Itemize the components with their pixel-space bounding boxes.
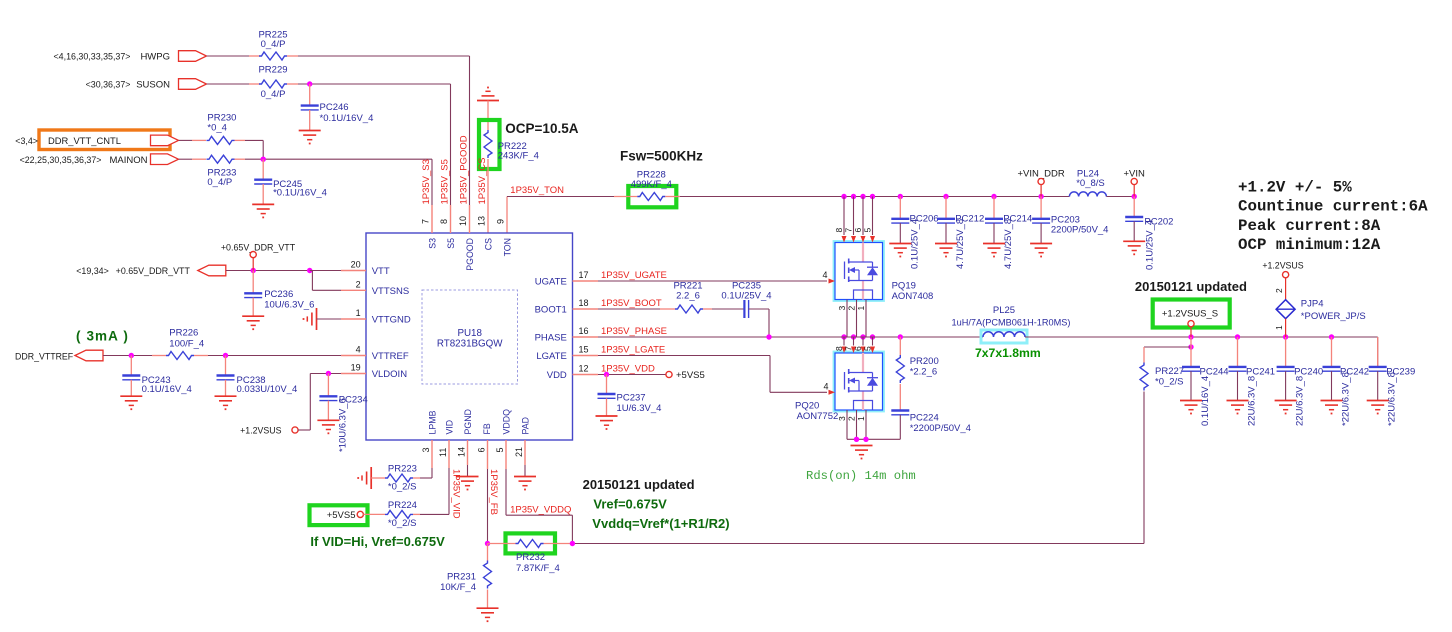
svg-text:FB: FB — [482, 423, 492, 434]
svg-text:SUSON: SUSON — [136, 80, 170, 91]
svg-text:3: 3 — [837, 306, 847, 311]
wire 1P35V_LGATE — [598, 345, 827, 393]
annotation output spec — [1238, 179, 1428, 255]
annotation 20150121 bottom — [583, 477, 695, 492]
svg-text:8: 8 — [834, 346, 844, 351]
svg-text:VDDQ: VDDQ — [502, 409, 512, 435]
PQ19 gate pin 4 — [822, 270, 835, 284]
svg-text:7x7x1.8mm: 7x7x1.8mm — [975, 346, 1041, 360]
op-amp controller U-PU18 RT8231BGQW body — [366, 233, 573, 440]
PQ20 drain pins 8 7 6 5 — [834, 337, 875, 353]
wire VTT net — [226, 268, 341, 273]
svg-text:1P35V_UGATE: 1P35V_UGATE — [601, 270, 667, 281]
ground below PC245 — [252, 204, 274, 217]
ground above PR222 (inverted) — [477, 88, 499, 131]
pin 3 LPMB — [421, 410, 438, 468]
svg-text:20150121 updated: 20150121 updated — [583, 477, 695, 492]
svg-text:S3: S3 — [428, 238, 438, 249]
ground at PAD pin — [514, 477, 536, 490]
svg-text:1P35V_BOOT: 1P35V_BOOT — [601, 298, 662, 309]
svg-text:10: 10 — [458, 216, 468, 226]
ground at VTTGND pin — [304, 308, 342, 330]
node DDR_VTTREF output flag — [15, 350, 103, 361]
PQ20 source pins 3 2 1 — [837, 410, 900, 442]
resistor PR227 — [1140, 363, 1184, 544]
ground below PC234 — [317, 420, 339, 433]
svg-text:VTTSNS: VTTSNS — [372, 286, 409, 297]
svg-text:8: 8 — [439, 219, 449, 224]
svg-text:3: 3 — [421, 447, 431, 452]
svg-text:*2.2_6: *2.2_6 — [910, 367, 937, 378]
PQ20 gate pin 4 — [823, 381, 835, 395]
node +0.65V_DDR_VTT output flag — [76, 265, 226, 276]
svg-text:7: 7 — [844, 228, 854, 233]
resistor PR229 — [258, 65, 287, 101]
node +VIN_DDR terminal — [1017, 169, 1064, 197]
svg-text:1P35V_CS: 1P35V_CS — [477, 157, 488, 204]
svg-text:<19,34>: <19,34> — [76, 266, 109, 276]
svg-text:*0.1U/16V_4: *0.1U/16V_4 — [320, 113, 374, 124]
svg-text:5: 5 — [863, 228, 873, 233]
svg-text:15: 15 — [578, 345, 588, 355]
pin 5 VDDQ — [495, 409, 512, 469]
svg-text:RT8231BGQW: RT8231BGQW — [437, 339, 503, 350]
wire SUSON to PR229 — [207, 83, 261, 85]
ground below PC244 — [1180, 401, 1202, 414]
svg-text:100/F_4: 100/F_4 — [169, 338, 204, 349]
svg-text:+1.2V +/- 5%: +1.2V +/- 5% — [1238, 179, 1352, 197]
svg-text:+0.65V_DDR_VTT: +0.65V_DDR_VTT — [221, 243, 296, 253]
svg-text:6: 6 — [853, 346, 863, 351]
svg-text:6: 6 — [477, 447, 487, 452]
svg-text:+1.2VSUS: +1.2VSUS — [1262, 261, 1303, 271]
svg-text:5: 5 — [495, 447, 505, 452]
capacitor PC238 — [217, 356, 298, 397]
wire VDDQ sense to PR227 — [572, 543, 1144, 545]
svg-text:VTT: VTT — [372, 266, 390, 277]
svg-text:14: 14 — [457, 447, 467, 457]
pin 19 VLDOIN — [341, 363, 407, 381]
inductor PL25 highlighted — [952, 305, 1071, 343]
svg-text:Fsw=500KHz: Fsw=500KHz — [620, 149, 703, 164]
svg-text:<4,16,30,33,35,37>: <4,16,30,33,35,37> — [54, 52, 131, 62]
PQ19 source pins 3 2 1 — [837, 300, 875, 340]
svg-text:AON7752: AON7752 — [797, 411, 839, 422]
svg-text:*22U/6.3V_8: *22U/6.3V_8 — [1341, 372, 1352, 426]
svg-text:PC237: PC237 — [617, 393, 646, 404]
wire FB net — [485, 469, 499, 546]
svg-text:4: 4 — [356, 345, 361, 355]
svg-text:1P35V_VDD: 1P35V_VDD — [601, 364, 655, 375]
wire VTTSNS branch — [310, 271, 341, 291]
svg-text:PR200: PR200 — [910, 356, 939, 367]
capacitor PC240 — [1277, 337, 1324, 426]
svg-text:PC203: PC203 — [1051, 214, 1080, 225]
capacitor PC224 — [891, 411, 971, 440]
svg-text:1P35V_S3: 1P35V_S3 — [421, 159, 432, 204]
svg-text:+5VS5: +5VS5 — [676, 370, 705, 381]
pin 18 BOOT1 — [535, 298, 598, 316]
inductor PL24 — [1069, 169, 1106, 197]
ground below PR231 — [477, 608, 499, 621]
svg-text:+0.65V_DDR_VTT: +0.65V_DDR_VTT — [116, 266, 191, 276]
pin 14 PGND — [457, 409, 474, 476]
svg-text:1P35V_PGOOD: 1P35V_PGOOD — [458, 135, 469, 204]
capacitor PC203 — [1032, 197, 1108, 244]
resistor PR200 — [896, 337, 938, 411]
svg-text:1: 1 — [356, 308, 361, 318]
svg-text:243K/F_4: 243K/F_4 — [498, 151, 539, 162]
svg-text:20150121 updated: 20150121 updated — [1135, 279, 1247, 294]
resistor PR228 highlighted — [614, 169, 680, 207]
wire PL24 to +VIN — [1106, 194, 1137, 199]
capacitor PC212 — [937, 197, 984, 270]
svg-text:<30,36,37>: <30,36,37> — [86, 80, 131, 90]
svg-text:7: 7 — [844, 346, 854, 351]
ground below PC202 — [1123, 241, 1145, 254]
svg-text:<3,4>: <3,4> — [15, 136, 38, 146]
svg-text:8: 8 — [834, 228, 844, 233]
wire input rail +VIN_DDR — [680, 194, 1069, 199]
svg-text:1P35V_PHASE: 1P35V_PHASE — [601, 326, 667, 337]
svg-text:PJP4: PJP4 — [1301, 299, 1324, 310]
ground below PQ20 — [851, 446, 873, 459]
svg-text:PC246: PC246 — [320, 102, 349, 113]
svg-text:*0_8/S: *0_8/S — [1076, 178, 1105, 189]
svg-text:OCP=10.5A: OCP=10.5A — [505, 121, 578, 136]
transistor PQ20 AON7752 — [795, 352, 884, 422]
wire output rail +1.2VSUS_S — [1025, 334, 1378, 367]
pin 2 VTTSNS — [341, 279, 409, 297]
svg-text:1uH/7A(PCMB061H-1R0MS): 1uH/7A(PCMB061H-1R0MS) — [952, 317, 1071, 327]
jumper PJP4 *POWER_JP/S — [1274, 278, 1366, 337]
capacitor PC206 — [891, 197, 938, 270]
svg-text:VTTREF: VTTREF — [372, 351, 409, 362]
svg-text:1P35V_VDDQ: 1P35V_VDDQ — [510, 504, 571, 515]
svg-text:*0_2/S: *0_2/S — [388, 481, 417, 492]
svg-text:5: 5 — [863, 346, 873, 351]
svg-text:PR226: PR226 — [169, 328, 198, 339]
svg-text:1U/6.3V_4: 1U/6.3V_4 — [617, 403, 662, 414]
svg-text:PL25: PL25 — [993, 305, 1015, 316]
resistor PR223 — [371, 464, 420, 493]
node +VIN terminal — [1124, 169, 1146, 197]
svg-text:0.033U/10V_4: 0.033U/10V_4 — [237, 384, 298, 395]
node +5VS5 terminal — [666, 370, 705, 381]
wire HWPG to PR225 — [207, 55, 261, 57]
resistor PR230 — [207, 113, 237, 145]
pin 7 S3 — [421, 159, 438, 249]
resistor PR222 highlighted — [479, 120, 539, 233]
svg-text:BOOT1: BOOT1 — [535, 305, 567, 316]
capacitor PC239 — [1369, 337, 1416, 426]
resistor PR231 — [440, 544, 491, 609]
wire 1P35V_VDD — [598, 364, 666, 378]
pin 8 S5 — [439, 159, 456, 249]
pin 6 FB — [477, 423, 493, 469]
svg-text:6: 6 — [853, 228, 863, 233]
svg-text:10K/F_4: 10K/F_4 — [440, 582, 476, 593]
svg-text:MAINON: MAINON — [110, 155, 148, 166]
svg-text:4: 4 — [822, 270, 827, 280]
wire 1P35V_VDDQ net — [506, 469, 575, 546]
pin 17 UGATE — [535, 270, 598, 288]
svg-text:LGATE: LGATE — [536, 351, 566, 362]
transistor PQ19 AON7408 — [834, 241, 934, 302]
wire PR226 to VTTREF pin — [194, 353, 341, 358]
capacitor PC245 — [254, 159, 327, 204]
svg-text:S5: S5 — [446, 238, 456, 249]
svg-text:499K/F_4: 499K/F_4 — [631, 179, 672, 190]
pin 15 LGATE — [536, 345, 598, 363]
ground below PC214 — [983, 244, 1005, 257]
capacitor PC242 — [1323, 337, 1370, 426]
node DDR_VTT_CNTL highlighted flag — [15, 130, 178, 150]
svg-text:VDD: VDD — [547, 370, 567, 381]
pin 9 TON — [496, 219, 513, 256]
pin 21 PAD — [514, 417, 531, 476]
svg-text:1: 1 — [856, 306, 866, 311]
svg-text:*0_2/S: *0_2/S — [1155, 377, 1184, 388]
svg-text:12: 12 — [578, 364, 588, 374]
capacitor PC237 — [598, 375, 662, 417]
wire VTTREF net — [103, 353, 166, 358]
resistor PR224 — [363, 500, 420, 529]
svg-text:Vvddq=Vref*(1+R1/R2): Vvddq=Vref*(1+R1/R2) — [592, 516, 729, 531]
svg-text:PQ20: PQ20 — [795, 401, 819, 412]
resistor PR226 — [166, 328, 204, 360]
svg-text:Rds(on) 14m ohm: Rds(on) 14m ohm — [806, 469, 916, 483]
svg-text:CS: CS — [484, 238, 494, 250]
resistor PR225 — [258, 30, 287, 61]
wire 1P35V_TON — [507, 185, 614, 233]
capacitor PC241 — [1229, 337, 1276, 426]
capacitor PC246 — [301, 84, 374, 131]
svg-text:<22,25,30,35,36,37>: <22,25,30,35,36,37> — [20, 155, 102, 165]
svg-text:2: 2 — [847, 416, 857, 421]
svg-text:PHASE: PHASE — [535, 333, 567, 344]
svg-text:1: 1 — [856, 416, 866, 421]
svg-text:PGND: PGND — [463, 409, 473, 434]
ground below PC212 — [935, 244, 957, 257]
svg-text:VLDOIN: VLDOIN — [372, 369, 408, 380]
svg-text:7.87K/F_4: 7.87K/F_4 — [516, 563, 560, 574]
svg-text:16: 16 — [578, 326, 588, 336]
capacitor PC234 — [319, 374, 367, 453]
ground below PC246 — [299, 131, 321, 144]
svg-text:*0.1U/16V_4: *0.1U/16V_4 — [273, 187, 327, 198]
svg-text:DDR_VTT_CNTL: DDR_VTT_CNTL — [48, 135, 121, 146]
svg-text:2: 2 — [847, 306, 857, 311]
svg-text:PR227: PR227 — [1155, 366, 1184, 377]
pin 13 CS — [477, 157, 494, 250]
wire FB sense branch — [1144, 344, 1194, 362]
svg-text:17: 17 — [578, 270, 588, 280]
svg-text:PU18: PU18 — [457, 328, 482, 339]
PQ19 drain pins 8 7 6 5 — [834, 197, 875, 243]
ground below PC237 — [596, 416, 618, 429]
svg-text:1P35V_FB: 1P35V_FB — [488, 469, 499, 515]
node +0.65V_DDR_VTT terminal — [221, 243, 296, 271]
capacitor PC202 — [1125, 197, 1173, 271]
svg-text:1: 1 — [1274, 325, 1284, 330]
svg-text:18: 18 — [578, 298, 588, 308]
svg-text:3: 3 — [837, 416, 847, 421]
svg-text:PR229: PR229 — [258, 65, 287, 76]
svg-text:0.1U/25V_4: 0.1U/25V_4 — [721, 290, 771, 301]
svg-text:2: 2 — [1274, 288, 1284, 293]
svg-text:21: 21 — [514, 447, 524, 457]
ground at PR223 — [358, 467, 371, 489]
svg-text:20: 20 — [351, 260, 361, 270]
svg-text:9: 9 — [496, 219, 506, 224]
node +1.2VSUS terminal — [240, 425, 298, 435]
svg-text:PR224: PR224 — [388, 500, 417, 511]
svg-text:0.1U/16V_4: 0.1U/16V_4 — [142, 384, 192, 395]
pin 4 VTTREF — [341, 345, 409, 363]
wire MAINON to 1P35V_S3 vertical — [235, 157, 433, 206]
svg-text:13: 13 — [477, 216, 487, 226]
svg-text:( 3mA ): ( 3mA ) — [76, 329, 129, 344]
capacitor PC235 (series) — [712, 281, 772, 319]
ground at PGND pin — [457, 477, 479, 490]
resistor PR233 — [179, 155, 237, 188]
svg-text:*0_4: *0_4 — [207, 122, 227, 133]
svg-text:PGOOD: PGOOD — [465, 238, 475, 271]
svg-text:0_4/P: 0_4/P — [261, 89, 286, 100]
svg-text:PR223: PR223 — [388, 464, 417, 475]
annotation Vref — [593, 497, 667, 512]
ground below PC239 — [1367, 401, 1389, 414]
wire PR225 to 1P35V_PGOOD vertical — [287, 56, 470, 205]
svg-text:If VID=Hi, Vref=0.675V: If VID=Hi, Vref=0.675V — [310, 534, 445, 549]
annotation PL25 size — [975, 346, 1041, 360]
wire 1P35V_BOOT — [598, 298, 662, 309]
svg-text:+1.2VSUS_S: +1.2VSUS_S — [1162, 308, 1218, 319]
wire PR229 to 1P35V_S5 vertical — [287, 81, 451, 205]
svg-text:10U/6.3V_6: 10U/6.3V_6 — [264, 300, 314, 311]
annotation Rds(on) — [806, 469, 916, 483]
node +1.2VSUS terminal at PJP4 — [1262, 261, 1303, 278]
svg-text:DDR_VTTREF: DDR_VTTREF — [15, 351, 74, 361]
svg-text:+5VS5: +5VS5 — [327, 510, 356, 521]
svg-text:PQ19: PQ19 — [892, 281, 916, 292]
wire 1P35V_UGATE — [598, 270, 827, 281]
ground below PC236 — [242, 316, 264, 329]
svg-text:11: 11 — [438, 448, 448, 457]
svg-text:19: 19 — [351, 363, 361, 373]
wire VLDOIN net — [298, 371, 341, 430]
capacitor PC236 — [244, 271, 314, 317]
svg-text:Vref=0.675V: Vref=0.675V — [593, 497, 667, 512]
svg-text:*10U/6.3V_6: *10U/6.3V_6 — [337, 398, 348, 452]
svg-text:1P35V_LGATE: 1P35V_LGATE — [601, 345, 665, 356]
pin 16 PHASE — [535, 326, 598, 344]
capacitor PC244 — [1182, 337, 1229, 426]
svg-text:4: 4 — [823, 381, 828, 391]
annotation 3mA — [76, 329, 129, 344]
svg-text:1P35V_S5: 1P35V_S5 — [439, 159, 450, 204]
svg-text:0.1U/25V_4: 0.1U/25V_4 — [1144, 220, 1155, 270]
svg-text:+1.2VSUS: +1.2VSUS — [240, 425, 281, 435]
svg-text:LPMB: LPMB — [428, 410, 438, 434]
wire PR230 to MAINON junction — [235, 140, 264, 159]
node MAINON input flag — [20, 154, 179, 166]
svg-text:PC224: PC224 — [910, 413, 939, 424]
capacitor PC214 — [985, 197, 1032, 270]
annotation If VID — [310, 534, 445, 549]
svg-text:PR232: PR232 — [516, 552, 545, 563]
svg-text:*2200P/50V_4: *2200P/50V_4 — [910, 423, 971, 434]
annotation OCP — [505, 121, 578, 136]
ground below PC241 — [1227, 401, 1249, 414]
ground below PC238 — [215, 396, 237, 409]
svg-text:VTTGND: VTTGND — [372, 315, 411, 326]
resistor PR221 — [660, 281, 712, 314]
ground below PC243 — [120, 396, 142, 409]
wire VID net — [420, 468, 461, 519]
pin 1 VTTGND — [341, 308, 411, 326]
pin 20 VTT — [341, 260, 390, 278]
svg-text:UGATE: UGATE — [535, 277, 567, 288]
wire phase rail to PL25 — [836, 334, 983, 339]
node HWPG input flag — [54, 51, 207, 63]
node SUSON input flag — [86, 79, 207, 91]
ground below PC206 — [889, 244, 911, 257]
ground below PC203 — [1030, 244, 1052, 257]
node +5VS5 highlighted terminal — [310, 505, 368, 525]
svg-text:2: 2 — [356, 279, 361, 289]
svg-text:1P35V_TON: 1P35V_TON — [510, 185, 564, 196]
svg-text:0_4/P: 0_4/P — [207, 177, 232, 188]
svg-text:*POWER_JP/S: *POWER_JP/S — [1301, 311, 1366, 322]
wire BOOT to phase rail — [768, 309, 770, 337]
pin 10 PGOOD — [458, 135, 475, 271]
annotation Fsw — [620, 149, 703, 164]
svg-text:*0_2/S: *0_2/S — [388, 518, 417, 529]
svg-text:HWPG: HWPG — [140, 52, 170, 63]
wire DDR_VTT_CNTL to PR230 — [179, 139, 206, 141]
svg-text:Peak current:8A: Peak current:8A — [1238, 217, 1381, 235]
svg-text:VID: VID — [445, 420, 455, 435]
svg-text:2.2_6: 2.2_6 — [676, 290, 700, 301]
capacitor PC243 — [122, 356, 191, 397]
wire 1P35V_PHASE rail — [598, 326, 836, 340]
svg-text:*22U/6.3V_8: *22U/6.3V_8 — [1387, 372, 1398, 426]
ground below PC242 — [1321, 401, 1343, 414]
wire LPMB to PR223 — [420, 468, 432, 478]
resistor PR232 highlighted — [488, 533, 573, 574]
ground below PC240 — [1275, 401, 1297, 414]
annotation 20150121 right — [1135, 279, 1247, 294]
node +1.2VSUS_S highlighted terminal — [1153, 300, 1230, 338]
svg-text:OCP minimum:12A: OCP minimum:12A — [1238, 236, 1381, 254]
svg-text:TON: TON — [503, 238, 513, 256]
svg-text:PC236: PC236 — [264, 289, 293, 300]
svg-text:2200P/50V_4: 2200P/50V_4 — [1051, 225, 1109, 236]
svg-text:7: 7 — [421, 219, 431, 224]
svg-text:Countinue current:6A: Countinue current:6A — [1238, 198, 1428, 216]
annotation Vvddq — [592, 516, 729, 531]
svg-text:PAD: PAD — [521, 417, 531, 434]
svg-text:0_4/P: 0_4/P — [261, 39, 286, 50]
pin 12 VDD — [547, 364, 598, 382]
svg-text:AON7408: AON7408 — [892, 291, 934, 302]
svg-text:PR231: PR231 — [447, 572, 476, 583]
pin 11 VID — [438, 420, 455, 468]
